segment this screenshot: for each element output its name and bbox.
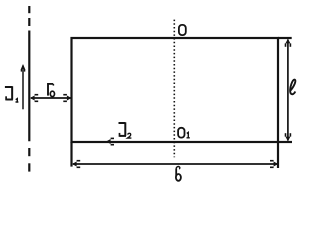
extension line right-bottom [277, 142, 279, 168]
extension line top-right [278, 37, 292, 39]
wire W1 dash line bottom [28, 148, 30, 172]
node O (top) [179, 25, 186, 35]
node O1 (bottom) [178, 128, 190, 138]
label r0 [48, 83, 55, 97]
dimension arrow l (right side height) [285, 39, 292, 141]
extension line bottom-right [278, 141, 292, 143]
label b [176, 167, 181, 181]
frame (rectangular loop) [72, 38, 279, 142]
axis OO1 (dotted symmetry line) [173, 20, 175, 158]
dimension arrow r0 (wire to frame left side) [30, 94, 72, 102]
label J2 [119, 122, 132, 138]
wire W1 solid middle segment [28, 31, 30, 142]
current arrow J1 (upward along wire) [21, 64, 26, 109]
extension line left-bottom [70, 142, 72, 167]
current arrow J2 (leftward on bottom side of frame) [106, 138, 114, 146]
dimension arrow b (bottom width) [72, 160, 278, 168]
wire W1 (straight conductor, dash line top) [28, 6, 30, 26]
label l (script ell) [290, 80, 296, 95]
label J1 [5, 86, 19, 102]
